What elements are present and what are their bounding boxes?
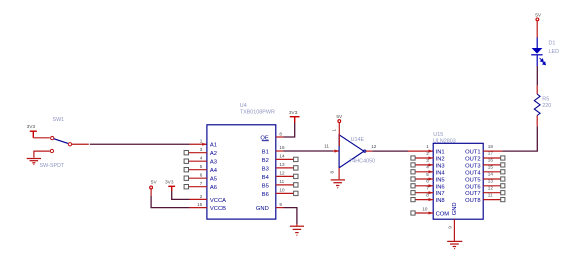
svg-text:OUT5: OUT5 (465, 178, 480, 184)
svg-text:B5: B5 (262, 183, 269, 189)
U15 pin 12 pad (501, 191, 505, 195)
svg-text:OUT6: OUT6 (465, 184, 480, 190)
net SWITCH: switch common to U4 pin A1 (72, 143, 89, 145)
wire throw 2 to ground (34, 151, 50, 158)
svg-text:OUT7: OUT7 (465, 191, 480, 197)
U15 pin 11 pad (501, 198, 505, 202)
U4 pin 15 stub (VCCB) (190, 207, 207, 209)
switch SW1 throw-1 contact circle (51, 136, 54, 139)
U15 pin 7 stub (IN7) (415, 192, 433, 194)
U4 pin 12 stub (B4) (276, 175, 294, 177)
svg-text:8: 8 (329, 171, 334, 174)
svg-text:U15: U15 (433, 132, 443, 138)
LED D1 emission arrows (540, 58, 546, 65)
svg-text:B3: B3 (262, 166, 269, 172)
svg-text:SW1: SW1 (53, 117, 65, 123)
U4 pin 1 arrowhead (202, 143, 207, 146)
svg-text:7: 7 (200, 181, 203, 186)
U15 pin 17 stub (OUT2) (483, 157, 501, 159)
U15 pin 17 pad (501, 156, 505, 160)
svg-text:VCCB: VCCB (210, 206, 226, 212)
wire 3V3 to switch throw 1 (33, 137, 50, 139)
svg-text:14: 14 (488, 172, 494, 177)
buffer input pin stub with arrowhead (333, 150, 339, 152)
svg-text:5: 5 (200, 164, 203, 169)
U15 pin 11 stub (OUT8) (483, 199, 501, 201)
svg-text:IN4: IN4 (436, 170, 446, 176)
resistor R5 top lead (536, 85, 538, 94)
svg-text:A3: A3 (210, 160, 217, 166)
net VCCA: 3V3 to U4 pin 2 (172, 191, 190, 199)
power symbol 5V (VCCB) (150, 186, 153, 189)
svg-text:OUT8: OUT8 (465, 198, 480, 204)
U15 pin 14 stub (OUT5) (483, 178, 501, 180)
switch SW1 throw-2 contact circle (50, 149, 53, 152)
U4 pin 5 pad (184, 168, 188, 172)
svg-text:A6: A6 (210, 185, 217, 191)
U4 pin 3 stub (A2) (189, 152, 207, 154)
U15 pin 4 stub (IN4) (415, 171, 433, 173)
svg-text:A5: A5 (210, 177, 217, 183)
svg-text:IN2: IN2 (436, 157, 445, 163)
svg-text:3V3: 3V3 (289, 110, 298, 116)
U4 pin 6 stub (A5) (189, 177, 207, 179)
U15 pin 3 pad (411, 163, 415, 167)
svg-text:5V: 5V (151, 179, 158, 185)
svg-text:U4: U4 (240, 103, 247, 109)
svg-text:9: 9 (279, 202, 282, 207)
svg-text:9: 9 (448, 226, 453, 229)
LED D1 (531, 38, 542, 67)
svg-text:IN5: IN5 (436, 178, 445, 184)
U15 pin 13 pad (501, 184, 505, 188)
buffer output stub (366, 150, 372, 152)
svg-text:3V3: 3V3 (165, 179, 174, 185)
U15 pin 9 GND wire (453, 219, 455, 241)
svg-text:B1: B1 (262, 149, 269, 155)
svg-text:3: 3 (200, 147, 203, 152)
U15 pin 1 stub (IN1) with arrowhead (408, 150, 433, 152)
svg-text:A4: A4 (210, 168, 218, 174)
svg-text:11: 11 (279, 179, 284, 184)
U15 pin 16 stub (OUT3) (483, 164, 501, 166)
svg-text:11: 11 (324, 144, 329, 149)
U4 pin 2 stub (VCCA) (190, 198, 207, 200)
svg-text:IN1: IN1 (436, 150, 445, 156)
switch SW1 common contact circle (68, 143, 71, 146)
net VCCB: 5V to U4 pin 15 (150, 189, 152, 196)
op-amp buffer U14E triangle (339, 135, 364, 168)
U15 pin 8 stub (IN8) (415, 199, 433, 201)
svg-text:VCCA: VCCA (210, 198, 226, 204)
svg-text:14: 14 (279, 154, 285, 159)
svg-text:6: 6 (200, 173, 203, 178)
ground (U15) (447, 241, 462, 248)
svg-text:B2: B2 (262, 158, 269, 164)
U4 pin 14 pad (294, 157, 298, 161)
power symbol 5V (LED) (536, 18, 539, 21)
U4 pin 3 pad (184, 151, 188, 155)
U4 pin 10 stub (B6) (276, 192, 294, 194)
svg-text:SW-SPDT: SW-SPDT (40, 163, 65, 169)
U4 pin 1 stub (A1) (190, 143, 207, 145)
svg-text:18: 18 (488, 144, 494, 149)
svg-text:GND: GND (256, 206, 269, 212)
ground (switch) (27, 159, 41, 165)
U4 pin 11 pad (294, 183, 298, 187)
net OE: U4 pin 8 to 3V3 (276, 136, 284, 138)
svg-text:A2: A2 (210, 151, 217, 157)
U15 pin 7 pad (411, 191, 415, 195)
svg-text:IN8: IN8 (436, 198, 445, 204)
U4 pin 6 pad (184, 176, 188, 180)
svg-text:15: 15 (197, 202, 203, 207)
U4 pin 7 stub (A6) (189, 186, 207, 188)
IC U15 ULN2803 box (433, 143, 483, 219)
U15 pin 5 pad (411, 177, 415, 181)
svg-text:IN6: IN6 (436, 184, 445, 190)
svg-text:OUT2: OUT2 (465, 157, 480, 163)
U4 pin 4 stub (A3) (189, 160, 207, 162)
svg-text:5V: 5V (535, 13, 542, 19)
svg-text:2: 2 (426, 151, 429, 156)
svg-text:8: 8 (279, 131, 282, 136)
svg-text:A1: A1 (210, 143, 217, 149)
ground (U4) (290, 226, 304, 235)
svg-text:D1: D1 (549, 41, 556, 47)
U15 pin 14 pad (501, 177, 505, 181)
U4 pin 5 stub (A4) (189, 169, 207, 171)
svg-text:U14E: U14E (351, 137, 365, 143)
svg-text:1: 1 (426, 144, 429, 149)
U15 pin 2 stub (IN2) (415, 157, 433, 159)
resistor R5 zigzag (534, 94, 540, 116)
power symbol 3V3 (switch) (30, 131, 37, 138)
U4 pin 11 stub (B5) (276, 184, 294, 186)
U15 pin 6 pad (411, 184, 415, 188)
svg-text:16: 16 (279, 145, 285, 150)
svg-text:OUT4: OUT4 (465, 170, 481, 176)
U15 pin 10 stub (COM) (415, 212, 433, 214)
U4 pin 13 stub (B3) (276, 167, 294, 169)
U15 pin 18 stub (OUT1) (483, 150, 502, 152)
svg-text:2: 2 (200, 194, 203, 199)
U15 pin 15 pad (501, 170, 505, 174)
svg-text:LED: LED (549, 49, 560, 55)
power symbol 3V3 (OE) (290, 117, 300, 123)
switch SW1 blade (54, 139, 68, 144)
svg-text:74HC4050: 74HC4050 (349, 159, 375, 165)
svg-text:TXB0108PWR: TXB0108PWR (240, 110, 275, 116)
U15 pin 4 pad (411, 170, 415, 174)
svg-text:1: 1 (200, 139, 203, 144)
buffer GND pin wire (338, 168, 340, 180)
svg-text:10: 10 (422, 207, 428, 212)
power symbol 5V (buffer) (338, 120, 341, 123)
svg-text:220: 220 (542, 103, 551, 109)
svg-text:12: 12 (279, 171, 285, 176)
U15 pin 5 stub (IN5) (415, 178, 433, 180)
U15 pin 16 pad (501, 163, 505, 167)
net OUT1 to LED column (502, 126, 537, 151)
U4 pin 4 pad (184, 159, 188, 163)
svg-text:12: 12 (371, 144, 377, 149)
U15 pin 15 stub (OUT4) (483, 171, 501, 173)
U15 pin 10 pad (411, 211, 415, 215)
U4 pin 16 stub (B1) (276, 150, 284, 152)
U15 pin 13 stub (OUT6) (483, 185, 501, 187)
buffer VCC pin wire (338, 123, 340, 146)
svg-text:ULN2803: ULN2803 (433, 138, 456, 144)
U15 pin 8 pad (411, 198, 415, 202)
svg-text:10: 10 (279, 188, 285, 193)
resistor R5 bottom lead (536, 116, 538, 127)
U15 pin 3 stub (IN3) (415, 164, 433, 166)
IC U4 TXB0108PWR box (207, 125, 276, 219)
U4 pin 13 pad (294, 166, 298, 170)
U15 pin 12 stub (OUT7) (483, 192, 501, 194)
U15 pin 2 pad (411, 156, 415, 160)
svg-text:1: 1 (332, 129, 337, 132)
U15 pin 6 stub (IN6) (415, 185, 433, 187)
U4 pin 7 pad (184, 185, 188, 189)
svg-text:4: 4 (200, 156, 203, 161)
net B1 wire to buffer input (284, 150, 334, 152)
svg-text:IN3: IN3 (436, 163, 445, 169)
net GND: U4 pin 9 to ground (276, 207, 284, 209)
power symbol 3V3 (VCCA) (168, 186, 175, 191)
U4 pin 14 stub (B2) (276, 158, 294, 160)
U4 pin 12 pad (294, 174, 298, 178)
svg-text:R5: R5 (542, 97, 549, 103)
net buffer output to U15 IN1 (372, 150, 408, 152)
svg-text:3V3: 3V3 (27, 124, 36, 130)
svg-text:13: 13 (279, 162, 285, 167)
svg-text:OUT3: OUT3 (465, 163, 480, 169)
svg-text:IN7: IN7 (436, 191, 445, 197)
ground (buffer) (331, 180, 345, 188)
net LED cathode to resistor R5 (536, 66, 538, 85)
svg-text:5V: 5V (336, 114, 343, 120)
U4 pin 10 pad (294, 191, 298, 195)
svg-text:B6: B6 (262, 192, 269, 198)
svg-text:OUT1: OUT1 (465, 150, 480, 156)
svg-text:GND: GND (452, 202, 458, 215)
svg-text:COM: COM (436, 212, 450, 218)
svg-text:B4: B4 (262, 175, 270, 181)
buffer output bubble (364, 150, 366, 152)
wire 5V to LED anode (536, 21, 538, 37)
